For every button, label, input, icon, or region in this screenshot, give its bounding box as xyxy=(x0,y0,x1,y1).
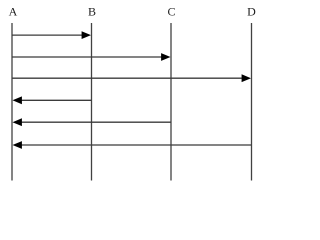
svg-text:B: B xyxy=(88,5,96,19)
message arrow C to A xyxy=(13,118,172,126)
label A xyxy=(9,5,18,19)
svg-text:D: D xyxy=(247,5,256,19)
message arrow D to A xyxy=(13,141,252,149)
lifeline C xyxy=(170,23,172,181)
lifeline B xyxy=(91,23,93,181)
message arrow B to A xyxy=(13,96,92,104)
message arrow A to C xyxy=(12,53,171,61)
message arrow A to D xyxy=(12,74,251,82)
lifeline D xyxy=(251,23,253,181)
svg-text:A: A xyxy=(9,5,18,19)
message arrow A to B xyxy=(12,31,91,39)
label B xyxy=(88,5,96,19)
lifeline A xyxy=(11,23,13,181)
label D xyxy=(247,5,256,19)
label C xyxy=(167,5,175,19)
svg-text:C: C xyxy=(167,5,175,19)
